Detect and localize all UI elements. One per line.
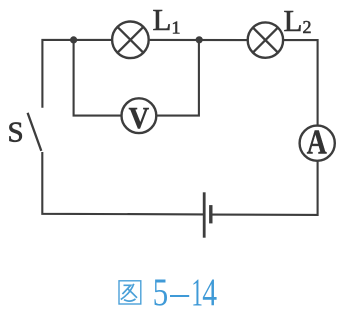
- wire top middle (between L1 and L2): [150, 39, 248, 41]
- wire top-left with left upper vertical: [42, 40, 111, 108]
- lamp L2: [248, 22, 283, 57]
- wire bottom-left with left lower vertical: [42, 152, 203, 214]
- svg-text:1: 1: [191, 271, 203, 313]
- wire voltmeter branch left (from node A down and right): [74, 41, 121, 116]
- svg-text:A: A: [307, 123, 328, 162]
- voltmeter V: [121, 98, 156, 135]
- svg-text:S: S: [8, 117, 24, 149]
- caption character 图 (drawn): [119, 281, 141, 304]
- svg-text:L2: L2: [284, 3, 312, 38]
- svg-text:–: –: [169, 271, 189, 313]
- battery long plate (positive): [203, 192, 206, 237]
- wire top-right with right upper vertical: [284, 40, 318, 125]
- node A junction dot: [70, 36, 77, 43]
- svg-text:5: 5: [153, 271, 169, 313]
- node B junction dot: [196, 36, 203, 43]
- ammeter A: [300, 123, 335, 162]
- wire bottom-right with right lower vertical: [212, 162, 318, 215]
- svg-text:L1: L1: [153, 2, 181, 38]
- svg-text:V: V: [129, 100, 150, 135]
- svg-text:4: 4: [202, 271, 217, 313]
- battery short plate (negative): [209, 205, 212, 223]
- switch S blade: [28, 113, 42, 151]
- lamp L1: [112, 22, 149, 59]
- wire voltmeter branch right (to node B up): [157, 41, 199, 116]
